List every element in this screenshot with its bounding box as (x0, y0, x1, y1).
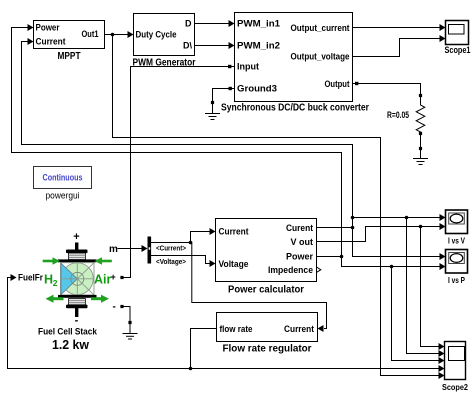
svg-text:Output_voltage: Output_voltage (291, 52, 350, 62)
svg-text:flow rate: flow rate (220, 324, 253, 334)
svg-text:Air: Air (94, 273, 112, 287)
svg-text:Output_current: Output_current (291, 23, 350, 33)
svg-text:Curent: Curent (286, 223, 313, 233)
svg-text:Duty Cycle: Duty Cycle (136, 30, 177, 40)
node power junction (340, 255, 344, 259)
wire - terminal to ground (124, 307, 130, 322)
svg-text:PWM_in1: PWM_in1 (237, 19, 280, 29)
node curent junction (351, 226, 355, 230)
ground symbol (Ground3) (206, 101, 220, 120)
top electrode striped block (69, 253, 86, 260)
svg-text:1.2 kw: 1.2 kw (52, 337, 90, 352)
svg-text:Power calculator: Power calculator (228, 285, 304, 296)
wire Ground3 to ground (213, 89, 229, 103)
block Synchronous DC/DC buck converter (221, 13, 369, 114)
green arrow top-left (inward) (44, 260, 53, 263)
block Scope1 (445, 21, 471, 56)
wire D\ to PWM_in2 (195, 45, 229, 47)
svg-text:Scope1: Scope1 (445, 45, 471, 55)
svg-text:V out: V out (291, 237, 314, 247)
svg-text:I vs P: I vs P (448, 275, 465, 285)
wire curent to I vs V in1 (353, 217, 440, 219)
svg-text:+: + (111, 272, 116, 282)
port square buck Input (228, 65, 231, 68)
svg-text:H: H (44, 273, 53, 287)
wire flow rate output net (191, 329, 217, 369)
bottom stem (75, 308, 78, 317)
svg-text:Flow rate regulator: Flow rate regulator (223, 344, 312, 355)
green arrow bottom-right (outward) (93, 297, 102, 300)
node curent riser junction (351, 216, 355, 220)
wire to Scope2 in2 (407, 218, 439, 354)
top cap bar (66, 250, 88, 254)
wire flow to FuelFr (8, 278, 191, 369)
Impedence unconnected port (317, 268, 321, 272)
svg-text:PWM_in2: PWM_in2 (237, 41, 280, 51)
green arrow top-right (inward) (102, 260, 111, 263)
wire Output_voltage to Scope1 in2 (353, 39, 440, 57)
svg-text:I vs V: I vs V (448, 236, 465, 246)
svg-text:Impedence: Impedence (268, 265, 313, 275)
block MPPT (34, 21, 105, 63)
svg-text:Scope2: Scope2 (442, 382, 468, 392)
big circle (61, 263, 93, 295)
svg-text:Synchronous DC/DC buck convert: Synchronous DC/DC buck converter (221, 103, 369, 114)
svg-text:Power: Power (286, 252, 314, 262)
wire MPPT Power feedback (from Power calc output up and around) (12, 28, 342, 257)
wire MPPT Current feedback (from Curent output riser) (22, 42, 353, 228)
node vout junction (419, 225, 423, 229)
bottom flange bar (58, 295, 97, 298)
block I vs V (XY graph) (446, 210, 468, 246)
svg-text:Current: Current (219, 227, 249, 237)
port square Ground3 (229, 87, 232, 90)
block powergui (34, 167, 92, 202)
top flange bar (58, 259, 97, 262)
svg-text:FuelFr: FuelFr (18, 273, 43, 283)
wire resistor to ground (420, 132, 422, 149)
wire fuel cell + terminal to buck Input (122, 67, 228, 278)
svg-text:2: 2 (53, 278, 58, 288)
block Power calculator (216, 219, 321, 296)
wire Power output net (317, 256, 342, 258)
wire V out net to I vs V in2 (317, 227, 440, 242)
block PWM Generator (133, 14, 196, 69)
node current junction (189, 241, 193, 245)
svg-text:Continuous: Continuous (43, 173, 83, 183)
svg-text:Fuel Cell Stack: Fuel Cell Stack (38, 327, 98, 338)
svg-text:Ground3: Ground3 (237, 84, 277, 94)
fuel cell stack icon (18, 231, 124, 352)
bus selector (148, 237, 187, 267)
wire duty feedback to Scope2 in5 (113, 35, 439, 376)
wire to Power calculator Current input (191, 232, 210, 243)
wire bus selector Voltage out to Power calculator (151, 256, 209, 264)
node scope2 in3 junction (390, 265, 394, 269)
wire current to flow regulator Current input (192, 243, 327, 329)
node flow junction (189, 367, 193, 371)
radial lines (61, 263, 94, 295)
svg-text:Voltage: Voltage (219, 259, 249, 269)
wire D to PWM_in1 (195, 23, 229, 25)
svg-text:m: m (109, 244, 118, 255)
svg-text:D: D (185, 19, 192, 29)
bottom electrode striped block (69, 299, 86, 305)
wire power to I vs P in2 (342, 257, 440, 267)
svg-text:Input: Input (237, 62, 259, 72)
wire to Scope2 in1 (421, 227, 439, 347)
svg-text:Current: Current (284, 324, 314, 334)
wire Output_current to Scope1 in1 (353, 27, 440, 29)
svg-text:<Current>: <Current> (156, 246, 186, 253)
block Scope2 (442, 342, 468, 393)
wire Curent output net (317, 227, 353, 229)
blue wedge (61, 263, 77, 294)
svg-text:MPPT: MPPT (58, 51, 81, 62)
top stem (75, 243, 78, 251)
green arrow bottom-left (outward) (53, 297, 62, 300)
svg-text:-: - (113, 302, 116, 313)
block I vs P (XY graph) (446, 250, 468, 286)
svg-text:R=0.05: R=0.05 (387, 110, 409, 120)
cell square (61, 263, 95, 295)
svg-text:<Voltage>: <Voltage> (156, 259, 186, 266)
wire Output to load resistor (353, 84, 421, 96)
port square Output (355, 82, 358, 85)
svg-text:Out1: Out1 (82, 29, 99, 39)
bottom cap bar (66, 305, 88, 309)
svg-text:Power: Power (36, 23, 60, 33)
wire Out1 to Duty Cycle (105, 34, 128, 36)
port square resistor top (419, 94, 422, 97)
wire bus selector Current out (151, 242, 190, 244)
svg-text:Output: Output (325, 79, 350, 89)
wire to Scope2 in3 (392, 267, 439, 361)
svg-text:Current: Current (36, 37, 66, 47)
wire flow to Scope2 in4 (191, 368, 439, 370)
node duty junction (111, 33, 115, 37)
inner circle (71, 272, 84, 285)
ground symbol (load) (414, 150, 428, 165)
node scope2 in2 junction (405, 216, 409, 220)
block Flow rate regulator (217, 313, 318, 355)
ground symbol (fuel cell -) (123, 321, 137, 339)
svg-text:-: - (75, 315, 79, 327)
svg-text:powergui: powergui (46, 191, 80, 202)
wire m to bus selector (118, 248, 142, 250)
resistor R=0.05 (387, 97, 425, 132)
wire curent to I vs P in1 (353, 228, 440, 257)
svg-text:D\: D\ (183, 41, 192, 51)
svg-text:+: + (73, 231, 79, 243)
